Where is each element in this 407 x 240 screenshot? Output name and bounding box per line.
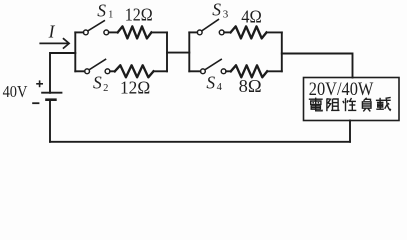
battery V1 40V xyxy=(41,93,62,100)
wire top branch to switch S3 xyxy=(189,31,197,33)
switch S2 xyxy=(85,59,110,73)
svg-text:I: I xyxy=(48,22,56,42)
svg-text:S2: S2 xyxy=(93,73,108,94)
svg-text:S4: S4 xyxy=(206,72,222,93)
wire S4 to R4 xyxy=(226,70,231,72)
wire bottom branch to switch S2 xyxy=(75,70,84,72)
resistor R2 12ohm xyxy=(115,65,154,77)
wire node B to node C xyxy=(167,52,189,54)
wire bottom return rail xyxy=(50,141,350,143)
switch S3 xyxy=(197,20,224,35)
wire R2 to node B xyxy=(154,70,168,72)
battery plus sign xyxy=(36,80,43,87)
wire R1 to node B xyxy=(151,31,167,33)
resistor R1 12ohm xyxy=(118,26,152,38)
svg-text:12Ω: 12Ω xyxy=(125,5,153,25)
label CJK resistive load (drawn strokes) xyxy=(309,97,391,111)
svg-text:4Ω: 4Ω xyxy=(241,6,262,26)
wire battery bottom down xyxy=(49,100,51,142)
wire S1 to R1 xyxy=(109,31,118,33)
switch S1 xyxy=(83,21,108,35)
svg-text:40V: 40V xyxy=(3,82,28,101)
wire R4 to node D xyxy=(267,70,282,72)
wire top branch to switch S1 xyxy=(75,31,83,33)
switch S4 xyxy=(201,59,227,73)
wire load box bottom down xyxy=(349,121,351,142)
wire node D to load box top xyxy=(282,54,353,78)
node A left junction bar xyxy=(74,32,76,71)
load box 20V/40W resistive load xyxy=(304,78,400,121)
wire R3 to node D xyxy=(267,31,282,33)
svg-text:12Ω: 12Ω xyxy=(120,77,150,97)
wire S2 to R2 xyxy=(110,70,115,72)
svg-text:S1: S1 xyxy=(97,0,113,20)
wire battery top to node A xyxy=(50,53,75,93)
resistor R3 4ohm xyxy=(231,26,267,38)
resistor R4 8ohm xyxy=(231,65,267,77)
wire bottom branch to switch S4 xyxy=(189,70,200,72)
wire S3 to R3 xyxy=(224,31,230,33)
svg-text:8Ω: 8Ω xyxy=(239,76,262,96)
battery minus sign xyxy=(32,102,39,104)
node D right junction bar of second section xyxy=(281,32,283,71)
svg-text:S3: S3 xyxy=(212,0,229,21)
node C left junction bar of second section xyxy=(188,32,190,71)
current arrow I xyxy=(39,38,69,48)
svg-text:20V/40W: 20V/40W xyxy=(309,80,374,100)
node B right junction bar of first section xyxy=(166,32,168,71)
